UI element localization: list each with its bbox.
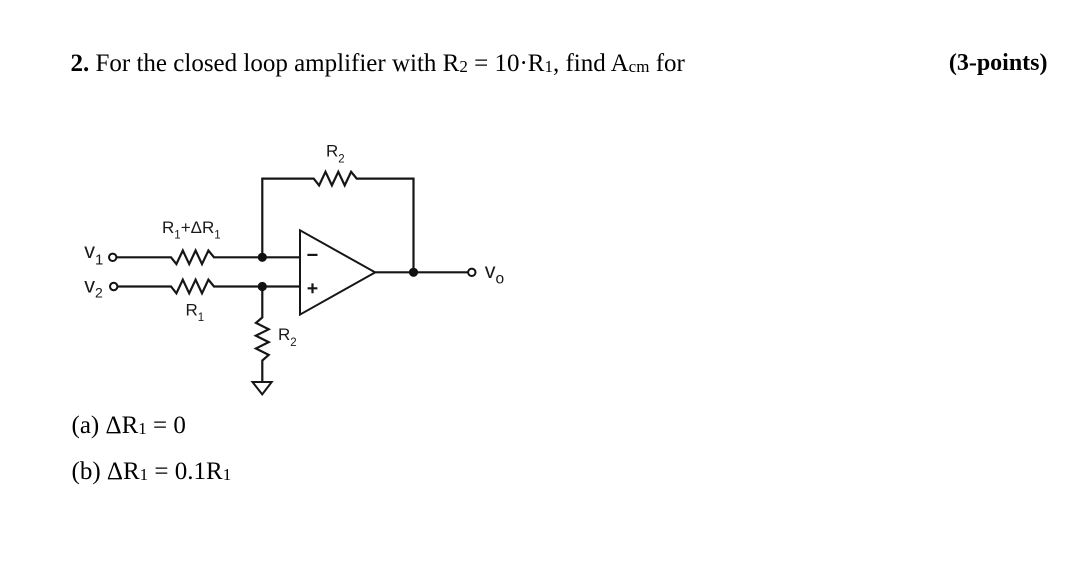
svg-text:vo: vo [485,259,504,288]
svg-text:R2: R2 [278,325,297,349]
svg-text:v2: v2 [84,274,103,301]
svg-text:R1: R1 [186,300,205,324]
svg-text:v1: v1 [84,239,103,268]
svg-text:R2: R2 [326,142,345,166]
svg-text:R1+ΔR1: R1+ΔR1 [162,218,221,242]
